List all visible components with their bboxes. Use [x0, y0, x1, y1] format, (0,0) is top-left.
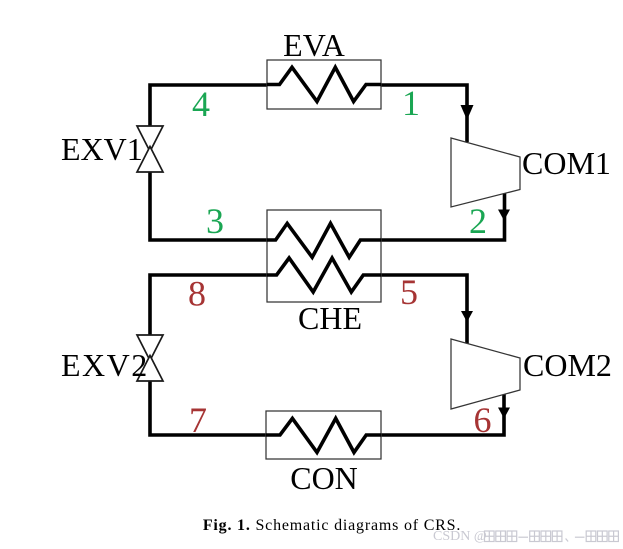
condenser CON coil zigzag — [266, 418, 381, 452]
svg-text:1: 1 — [402, 83, 420, 123]
svg-text:6: 6 — [474, 400, 492, 440]
svg-text:3: 3 — [206, 201, 224, 241]
condenser CON box — [266, 411, 381, 459]
cascade heat exchanger CHE box — [267, 210, 381, 302]
flow arrow out of COM1 — [498, 210, 510, 221]
svg-text:EXV1: EXV1 — [61, 131, 143, 167]
wire: top-left loop, EVA left to EXV1 top — [150, 85, 267, 126]
svg-text:CHE: CHE — [298, 300, 362, 336]
wire: COM1 outlet down and left to CHE top-right port — [381, 192, 505, 240]
evaporator EVA box — [267, 60, 381, 109]
compressor COM1 — [451, 138, 520, 207]
svg-text:7: 7 — [189, 400, 207, 440]
flow arrow out of COM2 — [498, 408, 510, 419]
svg-text:CON: CON — [290, 460, 358, 496]
svg-text:CSDN @: CSDN @ — [433, 529, 487, 544]
svg-text:4: 4 — [192, 84, 210, 124]
CHE lower coil zigzag — [267, 258, 381, 292]
svg-text:2: 2 — [469, 201, 487, 241]
svg-text:COM2: COM2 — [523, 347, 612, 383]
CHE upper coil zigzag — [267, 223, 381, 257]
svg-text:8: 8 — [188, 274, 206, 314]
wire: EXV1 bottom down and right to CHE top-left port — [150, 172, 267, 240]
expansion valve EXV2 — [137, 335, 163, 381]
wire: CHE bottom-right port to COM2 inlet — [381, 275, 467, 344]
compressor COM2 — [451, 339, 520, 409]
wire: CHE bottom-left port left and down to EXV2 top — [150, 275, 267, 335]
watermark CJK glyph blocks — [485, 531, 619, 542]
wire: COM2 outlet down and left to CON right — [381, 394, 504, 435]
svg-text:COM1: COM1 — [522, 145, 611, 181]
svg-text:EVA: EVA — [283, 27, 345, 63]
wire: EVA right to COM1 inlet — [381, 85, 467, 142]
watermark CSDN — [433, 529, 487, 544]
evaporator EVA coil zigzag — [267, 67, 381, 101]
svg-text:5: 5 — [400, 272, 418, 312]
expansion valve EXV1 — [137, 126, 163, 172]
svg-text:EXV2: EXV2 — [61, 347, 149, 383]
wire: EXV2 bottom down and right to CON left — [150, 381, 266, 435]
svg-text:Fig. 1. Schematic diagrams of: Fig. 1. Schematic diagrams of CRS. — [203, 517, 461, 534]
flow arrow into COM1 — [461, 105, 474, 120]
flow arrow into COM2 — [461, 311, 473, 322]
